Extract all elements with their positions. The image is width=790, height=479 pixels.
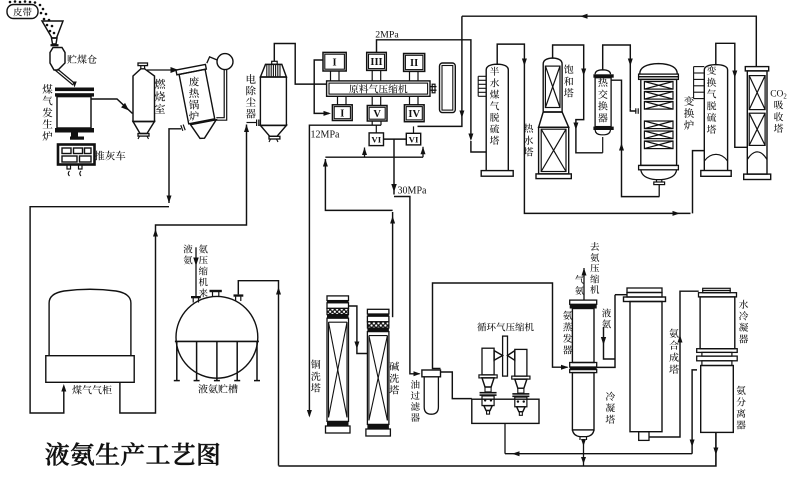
compressor stage box III (top) <box>367 52 387 70</box>
svg-text:30MPa: 30MPa <box>398 186 427 197</box>
svg-text:塔: 塔 <box>490 133 500 147</box>
svg-text:煤气气柜: 煤气气柜 <box>72 382 112 397</box>
ammonia inlet line 氨压缩机来 <box>195 247 197 297</box>
svg-text:原料气压缩机: 原料气压缩机 <box>349 81 408 95</box>
svg-text:器: 器 <box>246 107 257 122</box>
svg-text:器: 器 <box>563 343 573 357</box>
tower1 side ladder <box>478 75 486 77</box>
svg-text:VI: VI <box>409 134 419 144</box>
shift gas desulfurization tower 变换气脱硫塔 <box>704 65 727 171</box>
hopper neck <box>52 38 58 44</box>
cooler box I (bottom) <box>332 105 352 121</box>
recycle line from separator to compressor <box>505 453 692 455</box>
svg-text:炉: 炉 <box>42 129 53 144</box>
pipe separator top to recycle <box>692 370 697 454</box>
svg-text:2MPa: 2MPa <box>375 30 399 41</box>
svg-text:塔: 塔 <box>311 380 321 395</box>
pipe saturation top to heat exchanger bottom <box>553 45 603 153</box>
svg-text:氨: 氨 <box>183 253 193 267</box>
gas holder 煤气气柜 <box>49 289 131 355</box>
oil filter 油过滤器 <box>422 370 441 377</box>
feed hopper funnel <box>42 21 63 38</box>
sphere left nozzle <box>192 298 194 303</box>
VI stems up <box>375 125 377 133</box>
cooler box V (bottom) <box>367 106 387 122</box>
svg-text:塔: 塔 <box>389 382 399 397</box>
shift converter 变换炉 <box>640 64 678 75</box>
svg-text:氨: 氨 <box>602 316 612 330</box>
svg-text:塔: 塔 <box>669 361 679 376</box>
precipitator bottom cone and flange <box>260 125 286 136</box>
svg-text:I: I <box>340 108 344 119</box>
VI suction header from alkali tower <box>392 212 394 317</box>
svg-text:贮煤仓: 贮煤仓 <box>67 51 97 66</box>
svg-text:器: 器 <box>736 418 746 432</box>
condensation tower 冷凝塔 <box>572 373 594 430</box>
svg-text:机: 机 <box>590 282 600 296</box>
steam drum circle <box>217 54 233 70</box>
raw gas compressor 原料气压缩机 main body <box>327 81 430 96</box>
semi-water-gas desulfurization tower 半水煤气脱硫塔 <box>486 64 508 170</box>
electrostatic precipitator 电除尘器 <box>260 77 286 125</box>
wash tower 铜洗塔 <box>327 296 349 301</box>
converter catalyst beds <box>644 82 673 90</box>
evaporator top pipe to ammonia compressor <box>583 268 585 300</box>
CO2 return line into stage IV <box>418 16 462 126</box>
pipe tower1 top to converter system <box>497 44 690 213</box>
pipe oil filter to circulating loop (top) <box>433 283 568 369</box>
coal dots falling from belt <box>9 1 12 4</box>
pipe heat exchanger top to converter <box>603 45 631 109</box>
ammonia separator 氨分离器 <box>701 366 734 433</box>
main product line to sphere (bottom) <box>279 432 716 466</box>
transition saturation to hot water tower <box>539 112 569 127</box>
svg-text:塔: 塔 <box>707 122 717 136</box>
liquid ammonia feed line 液氨 <box>604 327 616 359</box>
waste heat boiler 废热锅炉 (tilted) <box>176 64 216 124</box>
svg-text:皮带: 皮带 <box>13 5 33 19</box>
compressor cylinder right <box>515 349 527 376</box>
compressor stage box II (top) <box>404 54 425 72</box>
svg-text:IV: IV <box>408 109 420 120</box>
stems top boxes <box>330 71 332 81</box>
pipe precipitator to compressor <box>274 44 326 85</box>
svg-text:II: II <box>410 58 418 69</box>
water condenser 水冷凝器 <box>703 288 731 290</box>
svg-text:塔: 塔 <box>564 85 574 100</box>
pipe copper tower top to alkali tower <box>349 306 357 349</box>
condensation tower bottom drain <box>583 440 585 466</box>
pipe synthesis bottom to water condenser <box>649 291 699 437</box>
svg-text:V: V <box>373 109 381 120</box>
pipe converter bottom to heat exchanger right side <box>611 80 659 196</box>
stage VI box 1 <box>369 133 383 146</box>
pipe combustion chamber to boiler <box>147 69 178 71</box>
converter left inlet flange <box>635 108 637 114</box>
VI interconnect and 30MPa line <box>384 138 407 140</box>
svg-text:液氨生产工艺图: 液氨生产工艺图 <box>45 436 221 472</box>
ammonia separator top flange <box>702 352 732 356</box>
sphere support bar and legs <box>175 340 259 342</box>
pipe oil filter outlet to compressor manifold <box>441 372 472 399</box>
saturation tower 饱和塔 <box>543 58 562 112</box>
pipe CO2 tower top return line to compressor <box>462 16 756 66</box>
chute from bunker to furnace <box>55 70 73 85</box>
pipe boiler outlet down to gas holder <box>169 129 181 203</box>
gas holder outlet pipe to precipitator <box>120 125 247 414</box>
12MPa line from cooler V to copper tower <box>380 121 382 125</box>
motor electric drive <box>440 63 456 113</box>
sphere right nozzle <box>235 297 237 301</box>
hot water tower 热水塔 <box>539 127 569 174</box>
compressor cylinder left <box>482 348 494 375</box>
svg-text:室: 室 <box>155 101 166 117</box>
tower2 side ladder <box>694 66 705 68</box>
compressor drive shaft <box>430 86 437 88</box>
CO2 absorption tower CO2吸收塔 <box>745 67 768 71</box>
svg-text:液氨贮槽: 液氨贮槽 <box>198 381 238 396</box>
liquid ammonia sphere tank 液氨贮槽 <box>176 296 258 378</box>
ammonia synthesis tower 氨合成塔 <box>627 288 662 293</box>
compressor stage box I (top) <box>323 52 346 71</box>
svg-text:12MPa: 12MPa <box>311 130 340 141</box>
wash tower 碱洗塔 <box>367 309 389 314</box>
coal bunker 贮煤仓 <box>50 48 65 71</box>
stage1 to cooler I pipe <box>314 60 329 113</box>
svg-text:炉: 炉 <box>684 118 695 133</box>
ash cart 推灰车 <box>58 145 95 165</box>
svg-text:推灰车: 推灰车 <box>94 149 126 164</box>
boiler bottom cone <box>191 120 217 139</box>
2MPa pipe from stage III <box>377 40 471 139</box>
svg-text:器: 器 <box>598 109 608 124</box>
pipe tower2 top to CO2 absorber <box>716 43 748 147</box>
stems bottom boxes <box>337 96 339 105</box>
pipe cap to drum <box>207 57 217 63</box>
stage VI box 2 <box>406 133 420 145</box>
svg-text:VI: VI <box>371 135 381 145</box>
manifold drain to recycle line <box>504 423 506 453</box>
svg-text:塔: 塔 <box>774 121 784 135</box>
ammonia evaporator 氨蒸发器 <box>570 300 597 304</box>
converter bottom dome and neck <box>641 170 677 180</box>
svg-text:氨: 氨 <box>575 283 585 297</box>
gas generator furnace 煤气发生炉 <box>55 88 94 92</box>
precipitator left inlet flange <box>256 120 258 127</box>
svg-text:I: I <box>333 57 337 68</box>
svg-text:III: III <box>370 57 382 68</box>
heat exchanger 热交换器 <box>595 70 610 75</box>
pipe furnace to combustion chamber <box>91 99 133 114</box>
svg-text:器: 器 <box>411 410 421 424</box>
pipe sphere to bottom product line <box>238 281 278 466</box>
middle flange band <box>570 363 597 368</box>
cooler box IV (bottom) <box>404 105 424 122</box>
compressor flywheel and drive <box>503 336 508 376</box>
precipitator comb top <box>260 64 286 77</box>
svg-text:塔: 塔 <box>605 412 615 426</box>
sphere top manhole nozzle <box>212 292 214 296</box>
svg-text:循环气压缩机: 循环气压缩机 <box>477 320 535 334</box>
pipe drum down to boiler body <box>216 69 224 117</box>
svg-text:器: 器 <box>739 332 749 346</box>
svg-text:塔: 塔 <box>524 144 534 159</box>
combustion chamber 燃烧室 <box>138 63 148 66</box>
boiler left nozzle flange <box>183 125 185 131</box>
svg-text:炉: 炉 <box>189 109 200 124</box>
CO2 tower packing beds <box>749 76 765 110</box>
compressor suction manifold <box>472 399 539 423</box>
belt conveyor 皮带 <box>7 5 38 19</box>
pipe synthesis top to condensation tower <box>615 294 627 296</box>
